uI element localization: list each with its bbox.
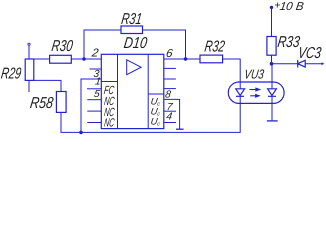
wire [271,55,273,64]
svg-text:R31: R31 [120,11,143,28]
op-amp triangle [127,60,141,75]
wire [272,63,298,65]
wire pin3 [81,79,101,132]
terminal input [28,43,30,45]
wire pin8 [164,99,180,129]
wire stub NC [87,122,101,124]
wire R29 bottom stub [28,80,30,92]
svg-text:R29: R29 [0,66,22,83]
wire pin7 [164,110,176,112]
svg-text:NC: NC [103,115,115,129]
svg-text:R30: R30 [50,38,74,55]
resistor R32 [200,55,223,63]
wire [223,59,241,89]
wire [271,7,273,36]
svg-text:6: 6 [165,48,174,60]
node [270,62,274,66]
light arrows [250,89,257,91]
svg-text:R32: R32 [203,38,226,55]
ground bar [267,120,278,122]
wire [28,46,30,59]
wire [271,96,273,120]
resistor R58 [56,92,66,113]
svg-text:10 В: 10 В [279,1,305,13]
wire stub NC [87,110,101,112]
wire [34,58,50,60]
svg-text:4: 4 [166,111,174,122]
svg-text:VC3: VC3 [297,45,323,62]
svg-text:R33: R33 [276,34,301,51]
arrow [322,62,325,65]
resistor R30 [50,55,72,63]
wire [164,58,200,60]
svg-text:VU3: VU3 [243,67,265,82]
op-amp D10 body [101,54,164,128]
ground bar [176,128,184,130]
svg-text:1: 1 [94,77,101,88]
wire stub [90,68,102,70]
photodiode of VU3 [268,89,277,96]
wire [61,103,240,132]
wire right stubs [164,67,176,69]
resistor R31 [121,26,143,34]
svg-text:R58: R58 [29,95,55,112]
wire stub NC [87,99,101,101]
svg-text:2: 2 [90,48,100,60]
resistor R29 [25,59,34,80]
svg-text:5: 5 [93,89,101,100]
wire [305,63,322,65]
wire [34,80,62,91]
wire stub [87,88,101,90]
wire pin4 [164,122,176,124]
node pin2 [82,57,86,61]
node rail [79,131,83,135]
wire photodiode drop [271,64,273,89]
wire [84,30,121,59]
svg-text:Uc: Uc [150,116,161,127]
svg-text:D10: D10 [123,35,149,52]
optocoupler VU3 ellipse [228,82,284,103]
node pin6 [184,57,188,61]
wire [143,30,186,59]
resistor R33 [267,37,276,56]
diode VC3 [297,60,299,68]
LED of VU3 [236,89,245,96]
supply node [270,6,273,9]
wire [71,58,101,60]
